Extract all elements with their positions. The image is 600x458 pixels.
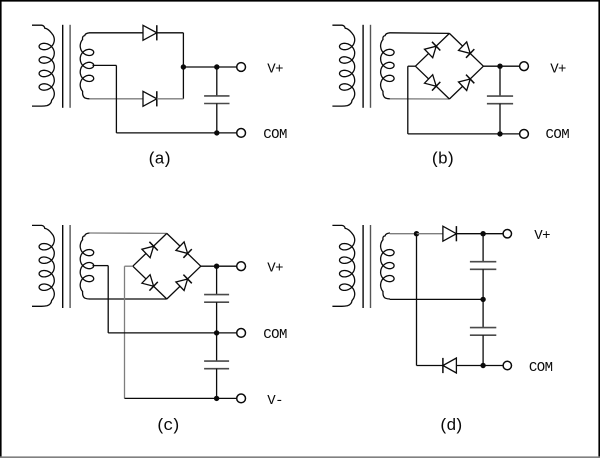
svg-text:COM: COM xyxy=(529,360,553,376)
label V+ (d) xyxy=(534,228,550,244)
bridge diode (c) bottom-right xyxy=(176,275,192,291)
transformer (b) primary winding xyxy=(332,25,354,106)
wire secondary top lead (c) xyxy=(89,232,167,234)
wire secondary bottom lead (a) xyxy=(89,98,143,100)
wire bridge right to cap node (b) xyxy=(483,65,500,67)
label V+ (c) xyxy=(267,261,283,277)
node V+ cap top (c) xyxy=(214,264,219,269)
wire bridge arm bottom-right (b) xyxy=(449,66,483,99)
terminal V+ (d) xyxy=(503,230,511,238)
svg-text:(c): (c) xyxy=(156,417,179,436)
wire rail to cap node (a) xyxy=(183,66,216,68)
label V+ (b) xyxy=(550,61,566,77)
node V+ cap top (d) xyxy=(480,231,485,236)
capacitor C2 (c) xyxy=(204,333,229,399)
transformer (d) core xyxy=(363,225,370,308)
diode (a) bottom D2 xyxy=(143,91,157,106)
transformer (c) primary winding xyxy=(32,225,54,306)
wire cap node to V+ terminal (b) xyxy=(500,65,520,67)
diode (a) top D1 xyxy=(143,25,157,40)
bridge diode (c) top-left xyxy=(142,242,158,258)
wire node A to D1 (d) xyxy=(417,233,443,235)
wire center tap vertical (a) xyxy=(115,65,117,132)
node COM mid (c) xyxy=(214,330,219,335)
wire bridge left stub (b) xyxy=(408,65,416,67)
capacitor C1 (a) xyxy=(204,67,229,133)
bridge diode (b) top-left xyxy=(425,42,441,58)
svg-text:(a): (a) xyxy=(147,150,170,169)
wire secondary top lead (d) xyxy=(390,233,417,235)
node rail junction (a) xyxy=(181,64,186,69)
wire V- line (c) xyxy=(125,397,237,399)
terminal V- (c) xyxy=(237,394,246,403)
wire center tap (a) xyxy=(93,64,117,66)
label (c) xyxy=(156,417,179,436)
wire bridge arm bottom-right (c) xyxy=(167,266,201,299)
label COM (d) xyxy=(529,360,553,376)
wire COM line (a) xyxy=(116,132,236,134)
wire node A vertical (d) xyxy=(416,234,418,366)
label COM (b) xyxy=(546,127,570,143)
label V+ (a) xyxy=(267,62,283,78)
wire bridge right to cap node (c) xyxy=(201,265,217,267)
wire COM line (b) xyxy=(408,133,520,135)
transformer (c) core xyxy=(63,225,70,308)
wire bridge left stub (c) xyxy=(125,265,133,267)
svg-text:V+: V+ xyxy=(267,62,283,78)
svg-text:V+: V+ xyxy=(267,261,283,277)
diode (d) top D1 xyxy=(443,226,457,241)
wire bridge arm top-right (b) xyxy=(449,33,483,66)
svg-text:V-: V- xyxy=(267,393,283,409)
wire COM node to terminal (d) xyxy=(483,365,503,367)
terminal COM (b) xyxy=(520,130,529,139)
svg-text:(d): (d) xyxy=(439,417,462,436)
capacitor C1 (d) xyxy=(470,234,496,300)
diode (d) bottom D2 xyxy=(443,358,457,373)
node COM cap bottom (b) xyxy=(497,131,502,136)
bridge diode (b) bottom-left xyxy=(425,75,441,91)
transformer (a) core xyxy=(63,25,70,108)
svg-text:V+: V+ xyxy=(534,228,550,244)
wire bridge arm top-right (c) xyxy=(167,233,201,266)
wire bridge arm bottom-left (b) xyxy=(415,66,449,99)
transformer (c) secondary winding xyxy=(80,233,94,299)
wire bridge arm bottom-left (c) xyxy=(133,266,167,299)
svg-text:COM: COM xyxy=(263,327,287,343)
capacitor C1 (b) xyxy=(487,66,513,134)
wire secondary bottom lead (b) xyxy=(390,98,450,100)
wire secondary bottom lead to mid node (d) xyxy=(390,298,483,300)
svg-text:COM: COM xyxy=(263,127,287,143)
terminal COM (a) xyxy=(237,129,246,138)
bridge diode (b) top-right xyxy=(459,42,475,58)
transformer (b) core xyxy=(363,25,370,108)
wire center tap vertical (c) xyxy=(107,266,109,333)
bridge diode (c) top-right xyxy=(176,242,192,258)
transformer (b) secondary winding xyxy=(381,33,395,99)
capacitor C1 (c) xyxy=(204,266,229,333)
bridge diode (b) bottom-right xyxy=(459,75,475,91)
wire D2 to COM node (d) xyxy=(456,365,483,367)
wire secondary bottom lead (c) xyxy=(89,298,167,300)
wire D1 to V+ node (d) xyxy=(456,233,483,235)
transformer (d) primary winding xyxy=(332,225,354,306)
wire V+ node to terminal (d) xyxy=(483,233,503,235)
wire bridge left vertical to V- (c) xyxy=(124,266,126,398)
wire cap node to V+ terminal (c) xyxy=(217,265,237,267)
label (b) xyxy=(430,150,453,169)
wire D1 cathode to right rail (a) xyxy=(157,32,184,34)
wire cap node to V+ terminal (a) xyxy=(217,66,237,68)
terminal COM (c) xyxy=(237,329,246,338)
node COM cap bottom (d) xyxy=(480,363,485,368)
terminal V+ (b) xyxy=(520,62,529,71)
svg-text:V+: V+ xyxy=(550,61,566,77)
terminal V+ (c) xyxy=(237,262,246,271)
node V+ cap top (a) xyxy=(214,64,219,69)
wire bridge arm top-left (b) xyxy=(415,33,449,66)
terminal V+ (a) xyxy=(237,63,246,72)
wire bridge left vertical (b) xyxy=(407,66,409,134)
transformer (a) primary winding xyxy=(32,25,54,106)
node COM cap bottom (a) xyxy=(214,130,219,135)
svg-text:(b): (b) xyxy=(430,150,453,169)
transformer (d) secondary winding xyxy=(381,233,395,299)
node mid caps (d) xyxy=(480,297,485,302)
wire center tap (c) xyxy=(93,265,109,267)
wire D2 cathode to right rail (a) xyxy=(157,98,184,100)
transformer (a) secondary winding xyxy=(80,33,94,99)
svg-text:COM: COM xyxy=(546,127,570,143)
node A top (d) xyxy=(414,231,419,236)
terminal COM (d) xyxy=(503,361,511,369)
wire right rail vertical (a) xyxy=(182,33,184,99)
node V- cap bottom (c) xyxy=(214,396,219,401)
label COM (a) xyxy=(263,127,287,143)
capacitor C2 (d) xyxy=(470,299,496,365)
wire bridge arm top-left (c) xyxy=(133,233,167,266)
wire secondary top lead (a) xyxy=(89,32,143,34)
label V- (c) xyxy=(267,393,283,409)
wire COM line (c) xyxy=(108,332,237,334)
node V+ cap top (b) xyxy=(497,63,502,68)
wire secondary top lead (b) xyxy=(390,32,450,35)
label (d) xyxy=(439,417,462,436)
label COM (c) xyxy=(263,327,287,343)
bridge diode (c) bottom-left xyxy=(142,275,158,291)
wire bottom to D2 (d) xyxy=(417,365,443,367)
label (a) xyxy=(147,150,170,169)
